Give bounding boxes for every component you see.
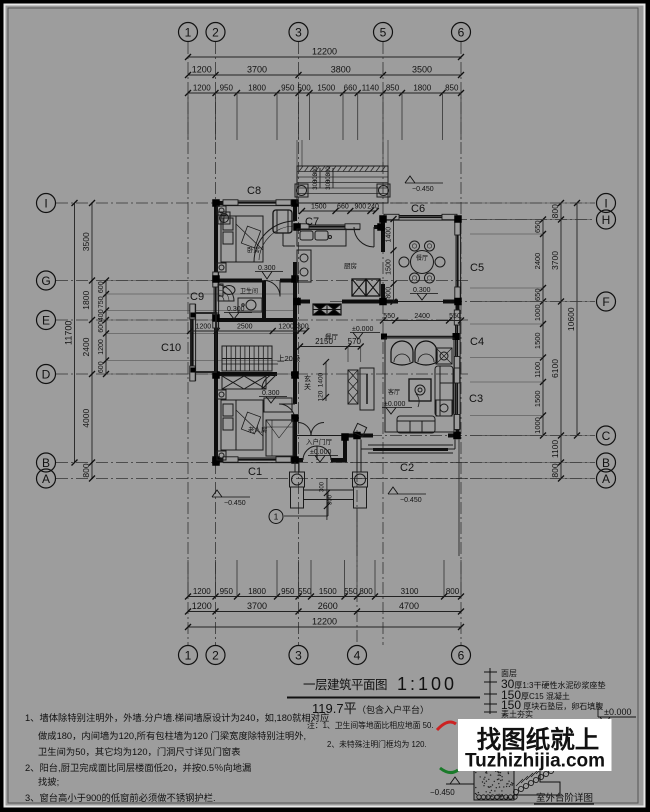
- svg-text:1400: 1400: [386, 227, 393, 243]
- corner table bottom: [436, 400, 452, 416]
- living room top line: [383, 336, 456, 338]
- svg-text:1500: 1500: [311, 204, 327, 211]
- window C8 band: [223, 205, 291, 207]
- entry bottom wall with double door: [295, 458, 303, 462]
- svg-text:1500: 1500: [317, 84, 335, 93]
- master bed: [221, 400, 263, 450]
- armchair 2: [415, 341, 437, 365]
- left small dimension chain: [105, 281, 107, 375]
- svg-text:0.300: 0.300: [413, 287, 431, 294]
- wall bedroom/bathroom with door gap: [216, 279, 262, 283]
- svg-text:120: 120: [318, 390, 325, 401]
- axis bubble I left: [37, 194, 56, 213]
- svg-text:素土夯实: 素土夯实: [501, 709, 533, 719]
- svg-text:做成180，内间墙为120,所有包柱墙为120 门梁宽度: 做成180，内间墙为120,所有包柱墙为120 门梁宽度除特别注明外,: [38, 730, 306, 741]
- svg-text:3500: 3500: [412, 65, 432, 75]
- bottom witness lines: [187, 560, 189, 597]
- living room floor outline: [385, 338, 454, 432]
- hall dims 2150/570: [300, 346, 361, 348]
- horizontal axis grid lines: [56, 202, 470, 204]
- svg-text:1200: 1200: [193, 587, 211, 596]
- svg-text:C4: C4: [470, 336, 484, 348]
- svg-text:950: 950: [220, 587, 234, 596]
- bathroom shower fan: [218, 285, 234, 301]
- axis bubble G left: [37, 271, 56, 290]
- svg-text:D: D: [42, 367, 51, 381]
- svg-text:1800: 1800: [413, 84, 431, 93]
- svg-text:3700: 3700: [550, 251, 560, 270]
- svg-text:B: B: [602, 456, 610, 470]
- window C1 band: [223, 462, 291, 464]
- C2 bay window: [360, 440, 362, 450]
- svg-text:570: 570: [348, 337, 362, 346]
- svg-text:1200: 1200: [98, 339, 105, 355]
- svg-text:−0.450: −0.450: [412, 186, 434, 193]
- dining top wall: [383, 216, 398, 220]
- svg-text:2、阳台,厨卫完成面比同层楼面低20，并按0.5％向地漏: 2、阳台,厨卫完成面比同层楼面低20，并按0.5％向地漏: [25, 762, 251, 773]
- svg-text:1800: 1800: [248, 84, 266, 93]
- svg-text:300: 300: [297, 324, 309, 331]
- rear porch posts: [295, 184, 308, 197]
- toilet: [218, 284, 223, 296]
- axis bubble D left: [37, 365, 56, 384]
- rear porch step dims: [319, 168, 321, 188]
- svg-text:800: 800: [550, 463, 560, 477]
- axis bubble B right: [597, 453, 616, 472]
- svg-text:550: 550: [383, 313, 395, 320]
- svg-text:3: 3: [295, 648, 302, 662]
- svg-text:11700: 11700: [64, 321, 74, 345]
- svg-text:3500: 3500: [81, 232, 91, 251]
- svg-text:3: 3: [295, 25, 302, 39]
- svg-text:E: E: [42, 313, 50, 327]
- svg-text:1: 1: [274, 512, 279, 522]
- right witness lines: [470, 219, 543, 221]
- axis bubble 1 bottom: [179, 646, 198, 665]
- bed bedroom1: [221, 216, 263, 262]
- exterior wall top of bedroom: [214, 201, 237, 205]
- entry porch side walls: [294, 462, 296, 472]
- svg-text:3100: 3100: [401, 587, 419, 596]
- svg-text:1: 1: [185, 25, 192, 39]
- svg-text:4000: 4000: [81, 409, 91, 428]
- bathroom door arc: [264, 281, 280, 297]
- svg-text:±0.000: ±0.000: [604, 707, 631, 717]
- svg-text:Tuzhizhijia.com: Tuzhizhijia.com: [465, 751, 605, 772]
- hall dims 1200/300: [190, 330, 306, 332]
- svg-text:800: 800: [446, 587, 460, 596]
- foyer inner door arcs: [298, 423, 311, 436]
- svg-text:1: 1: [185, 648, 192, 662]
- svg-text:客厅: 客厅: [388, 388, 400, 396]
- svg-text:卫生间: 卫生间: [240, 287, 258, 295]
- svg-text:A: A: [42, 472, 50, 486]
- svg-text:1140: 1140: [362, 84, 380, 93]
- svg-text:2、未特殊注明门框均为 120.: 2、未特殊注明门框均为 120.: [327, 739, 427, 749]
- level -0.450 left: [212, 490, 222, 497]
- svg-text:入户门厅: 入户门厅: [306, 437, 333, 446]
- svg-text:240: 240: [367, 204, 379, 211]
- living bottom wall: [345, 434, 373, 438]
- svg-text:−0.450: −0.450: [430, 788, 455, 797]
- axis bubble F right: [597, 292, 616, 311]
- dining opening dims: [383, 320, 461, 322]
- kitchen counter: [297, 229, 346, 246]
- watermark box: [458, 719, 612, 771]
- master bedroom door arc: [262, 374, 277, 389]
- axis bubble 5 top: [374, 23, 393, 42]
- svg-text:0.300: 0.300: [262, 390, 280, 397]
- svg-text:550: 550: [344, 587, 358, 596]
- axis bubble H right: [597, 210, 616, 229]
- rear porch railing hatch: [299, 166, 303, 172]
- svg-text:950: 950: [281, 587, 295, 596]
- svg-text:2600: 2600: [318, 601, 338, 611]
- svg-text:1100: 1100: [533, 362, 542, 378]
- svg-text:关: 关: [304, 382, 311, 391]
- svg-text:室外台阶详图: 室外台阶详图: [536, 792, 593, 804]
- top witness lines: [187, 93, 189, 140]
- wardrobe bedroom1: [273, 210, 292, 233]
- master nightstands: [217, 390, 226, 399]
- rear porch witness extensions: [296, 140, 298, 166]
- svg-text:2: 2: [212, 25, 219, 39]
- dining left wall: [381, 218, 385, 253]
- svg-text:500: 500: [297, 84, 311, 93]
- axis bubble B left: [37, 453, 56, 472]
- svg-text:C1: C1: [248, 466, 262, 478]
- svg-text:1500: 1500: [533, 332, 542, 349]
- svg-text:C6: C6: [411, 203, 425, 215]
- window C5 band: [460, 220, 462, 302]
- svg-text:4: 4: [354, 648, 361, 662]
- svg-text:2400: 2400: [81, 337, 91, 356]
- bottom dimension chain row 3 total 12200: [188, 626, 461, 628]
- hall planter: [313, 304, 341, 315]
- svg-text:3800: 3800: [331, 65, 351, 75]
- svg-text:−0.450: −0.450: [224, 500, 246, 507]
- svg-text:2: 2: [212, 648, 219, 662]
- svg-text:卫生间为50，其它均为120，门洞尺寸详见门窗表: 卫生间为50，其它均为120，门洞尺寸详见门窗表: [38, 746, 241, 757]
- window C4 band: [459, 310, 461, 372]
- dining right wall: [456, 216, 460, 235]
- svg-text:C10: C10: [161, 342, 181, 354]
- svg-text:400: 400: [98, 309, 105, 321]
- svg-text:2400: 2400: [533, 253, 542, 270]
- svg-text:650: 650: [533, 288, 542, 301]
- sofa right: [435, 366, 453, 416]
- svg-text:1400: 1400: [318, 372, 325, 387]
- floor build-up legend: [489, 668, 491, 714]
- svg-text:厨房: 厨房: [344, 261, 357, 270]
- svg-text:550: 550: [449, 313, 461, 320]
- svg-text:6: 6: [458, 25, 465, 39]
- svg-text:1500: 1500: [319, 587, 337, 596]
- window C6 band: [384, 219, 457, 221]
- svg-text:6100: 6100: [550, 359, 560, 378]
- hall left wall: [293, 302, 297, 405]
- tv cabinet: [360, 368, 374, 410]
- axis bubble 1 top: [179, 23, 198, 42]
- watermark red accent: [437, 722, 456, 730]
- vertical axis grid lines: [187, 42, 189, 645]
- kitchen porch door arc: [354, 227, 374, 247]
- top dimension chain row total 12200: [188, 56, 461, 58]
- svg-text:玄: 玄: [304, 374, 311, 383]
- svg-text:3700: 3700: [247, 601, 267, 611]
- hall left door arc: [279, 404, 295, 420]
- svg-text:1500: 1500: [533, 390, 542, 407]
- entry porch posts: [290, 472, 305, 487]
- shoe cabinet: [348, 370, 358, 404]
- svg-text:±0.000: ±0.000: [352, 326, 373, 333]
- svg-text:C: C: [602, 429, 611, 443]
- svg-text:上20级: 上20级: [277, 353, 301, 363]
- stair/bedroom wall D with door: [216, 372, 277, 376]
- svg-text:F: F: [602, 295, 609, 309]
- svg-text:±0.000: ±0.000: [310, 449, 331, 456]
- axis bubble A right: [597, 469, 616, 488]
- entry porch steps: [304, 489, 353, 491]
- svg-text:300: 300: [320, 481, 326, 492]
- axis bubble 2 top: [206, 23, 225, 42]
- svg-text:0.300: 0.300: [227, 306, 245, 313]
- svg-text:1800: 1800: [81, 291, 91, 310]
- axis bubble C right: [597, 426, 616, 445]
- bottom dimension chain row 1: [188, 596, 461, 598]
- columns: [212, 199, 220, 207]
- svg-text:600: 600: [98, 321, 105, 333]
- master wardrobe: [266, 420, 293, 456]
- svg-text:±0.000: ±0.000: [384, 401, 405, 408]
- svg-text:12200: 12200: [312, 617, 337, 627]
- kitchen/dining bottom wall: [295, 300, 310, 304]
- svg-text:1500: 1500: [386, 259, 393, 275]
- svg-text:660: 660: [344, 84, 358, 93]
- svg-text:C7: C7: [305, 216, 319, 228]
- svg-text:1200: 1200: [193, 84, 211, 93]
- svg-text:C2: C2: [400, 462, 414, 474]
- svg-text:1200: 1200: [196, 324, 212, 331]
- bathroom right wall: [262, 281, 266, 321]
- axis bubble 3 top: [289, 23, 308, 42]
- svg-text:1200: 1200: [192, 601, 212, 611]
- detail level -0.450: [446, 783, 474, 785]
- rear porch: [297, 166, 388, 203]
- axis bubble 2 bottom: [206, 646, 225, 665]
- svg-text:−0.450: −0.450: [400, 497, 422, 504]
- dining table: [411, 251, 434, 274]
- svg-text:（包含入户平台）: （包含入户平台）: [357, 704, 429, 715]
- left dimension chain segments: [91, 203, 93, 479]
- svg-text:3、窗台高小于900的低窗前必须做不锈钢护栏.: 3、窗台高小于900的低窗前必须做不锈钢护栏.: [25, 792, 216, 803]
- svg-text:找披;: 找披;: [38, 776, 59, 787]
- axis bubble 6 bottom: [452, 646, 471, 665]
- svg-text:I: I: [604, 196, 607, 210]
- entry porch step dims: [326, 478, 328, 520]
- nightstands bedroom1: [217, 206, 226, 215]
- svg-text:1000: 1000: [533, 304, 542, 321]
- closet below stairs: [222, 376, 266, 389]
- kitchen interior dim row: [302, 210, 376, 212]
- svg-text:老人房: 老人房: [248, 425, 268, 434]
- left dimension chain total 11700: [74, 203, 76, 463]
- svg-text:600: 600: [98, 281, 105, 293]
- window C9 band: [218, 272, 220, 328]
- right small dimension chain: [542, 220, 544, 436]
- entry right wall: [343, 436, 347, 463]
- svg-text:900: 900: [355, 204, 367, 211]
- axis bubble 3 bottom: [289, 646, 308, 665]
- level -0.450 right porch: [388, 487, 398, 494]
- svg-text:950: 950: [220, 84, 234, 93]
- coffee table: [409, 379, 431, 401]
- svg-text:750: 750: [98, 296, 105, 308]
- sofa bottom: [397, 416, 435, 433]
- bedside lamp table: [218, 212, 230, 224]
- bottom dimension chain row 2: [188, 611, 461, 613]
- svg-text:12200: 12200: [312, 47, 337, 57]
- axis bubble 4 bottom: [348, 646, 367, 665]
- detail bubble 1: [269, 510, 283, 524]
- top dimension chain row 2: [188, 74, 461, 76]
- svg-text:C9: C9: [190, 291, 204, 303]
- svg-text:2500: 2500: [237, 324, 253, 331]
- svg-text:660: 660: [337, 204, 349, 211]
- svg-text:850: 850: [386, 84, 400, 93]
- svg-text:1000: 1000: [533, 417, 542, 434]
- foyer dims 1400/120: [325, 362, 327, 401]
- bathroom bottom wall: [216, 318, 297, 322]
- svg-text:H: H: [602, 213, 611, 227]
- C10 bay window: [191, 313, 216, 372]
- svg-text:1、墙体除特别注明外，外墙.分户墙.梯间墙原设计为240，如: 1、墙体除特别注明外，外墙.分户墙.梯间墙原设计为240，如,180就相对应: [25, 712, 329, 723]
- right dimension chain segments: [560, 203, 562, 479]
- svg-text:餐厅: 餐厅: [416, 254, 428, 262]
- svg-text:300: 300: [326, 179, 332, 190]
- axis bubble I right: [597, 194, 616, 213]
- svg-text:1100: 1100: [550, 440, 560, 459]
- svg-text:5: 5: [380, 25, 387, 39]
- right dimension chain total 10600: [576, 203, 578, 436]
- stairs: [222, 346, 272, 371]
- kitchen stove: [297, 250, 311, 282]
- svg-text:600: 600: [98, 361, 105, 373]
- axis bubble 6 top: [452, 23, 471, 42]
- svg-text:3700: 3700: [247, 65, 267, 75]
- svg-text:800: 800: [386, 287, 393, 299]
- svg-text:1:100: 1:100: [397, 674, 457, 694]
- living room right wall: [456, 302, 460, 325]
- svg-text:I: I: [44, 196, 47, 210]
- svg-text:850: 850: [445, 84, 459, 93]
- axis bubble A left: [37, 469, 56, 488]
- svg-text:卧房: 卧房: [247, 245, 260, 254]
- dining left wall dims: [393, 219, 395, 302]
- svg-text:1800: 1800: [248, 587, 266, 596]
- entry double door arcs: [303, 446, 317, 460]
- svg-text:6: 6: [458, 648, 465, 662]
- kitchen sink: [300, 231, 313, 240]
- svg-text:10600: 10600: [566, 307, 576, 331]
- wall between bedroom and kitchen zone: [293, 203, 297, 221]
- svg-text:800: 800: [359, 587, 373, 596]
- left small witness lines: [106, 280, 295, 282]
- window C7 band: [294, 229, 360, 231]
- bedroom door arc: [254, 221, 295, 262]
- armchair 1: [391, 341, 413, 365]
- svg-text:650: 650: [533, 220, 542, 233]
- master bedroom bottom wall: [216, 458, 237, 462]
- washbasin: [238, 298, 262, 312]
- kitchen top wall: [297, 225, 308, 229]
- corner table top: [436, 348, 452, 364]
- plant bottom: [353, 423, 366, 436]
- svg-text:4700: 4700: [399, 601, 419, 611]
- svg-text:800: 800: [550, 204, 560, 218]
- axis bubble E left: [37, 311, 56, 330]
- svg-text:A: A: [602, 472, 610, 486]
- exterior wall left: [214, 201, 218, 286]
- svg-text:0.300: 0.300: [258, 265, 276, 272]
- svg-text:G: G: [41, 274, 50, 288]
- svg-text:1200: 1200: [192, 65, 212, 75]
- svg-text:B: B: [42, 456, 50, 470]
- svg-text:300: 300: [313, 179, 319, 190]
- top dimension chain row 3: [188, 92, 461, 94]
- svg-text:950: 950: [281, 84, 295, 93]
- svg-text:2150: 2150: [315, 337, 333, 346]
- svg-text:2400: 2400: [414, 313, 430, 320]
- svg-text:1200: 1200: [278, 324, 294, 331]
- svg-text:一层建筑平面图: 一层建筑平面图: [303, 677, 387, 692]
- svg-text:550: 550: [298, 587, 312, 596]
- svg-text:C3: C3: [469, 393, 483, 405]
- window C3 band: [459, 368, 461, 430]
- svg-text:C8: C8: [247, 185, 261, 197]
- svg-text:800: 800: [81, 463, 91, 477]
- level -0.450 top rear porch: [405, 176, 415, 183]
- desk master right: [264, 398, 292, 412]
- exterior step section profile: [474, 770, 514, 800]
- flue shafts: [352, 279, 366, 296]
- svg-text:C5: C5: [470, 262, 484, 274]
